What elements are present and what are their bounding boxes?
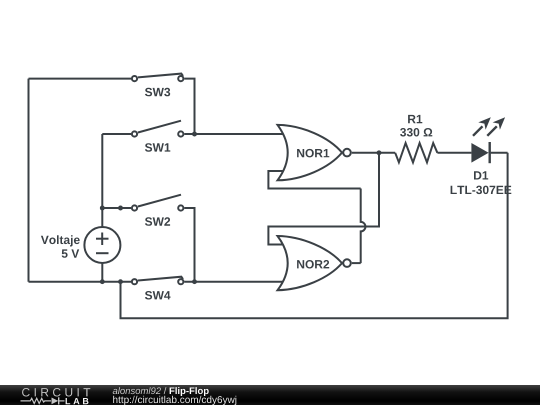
switch SW4 xyxy=(132,277,184,300)
footer CircuitLab logo xyxy=(21,388,91,405)
label D1 xyxy=(474,171,488,179)
wire LED cathode to right column xyxy=(491,152,508,154)
wire feedback to NOR1 bottom input xyxy=(268,171,360,189)
wire bottom return path xyxy=(121,153,508,318)
label SW1 xyxy=(145,143,170,152)
voltage source V1 xyxy=(41,227,121,263)
resistor R1 xyxy=(395,115,437,162)
wire NOR2 output up with hop over cross wire xyxy=(361,189,366,264)
wire SW1 right to NOR1 top input xyxy=(184,133,284,135)
wire SW1 row left with corner down xyxy=(102,133,131,135)
NOR gate NOR1 xyxy=(278,125,351,180)
wire SW4 right to NOR2 bottom input xyxy=(184,281,284,283)
NOR gate NOR2 xyxy=(278,236,351,290)
value label LTL-307EE xyxy=(451,186,512,195)
label NOR2 xyxy=(297,260,329,269)
wire SW3 row left xyxy=(29,78,132,80)
label R1 xyxy=(408,115,422,123)
label Voltaje xyxy=(41,235,80,246)
wire SW2 right to corner down to SW4 row xyxy=(184,208,194,282)
node dot SW4 tee xyxy=(100,279,105,284)
node junction dots xyxy=(100,132,382,285)
wire R1 to LED xyxy=(437,152,471,154)
node dot SW2 row xyxy=(118,206,123,211)
switch SW2 xyxy=(132,195,184,226)
wire SW3 right to corner down to SW1 row xyxy=(184,79,194,134)
switch SW1 xyxy=(132,121,184,152)
node dot SW4 row xyxy=(118,279,123,284)
wire NOR2 output right xyxy=(352,262,361,264)
wire SW2 row xyxy=(102,207,131,209)
LED D1 xyxy=(451,117,512,194)
footer title text xyxy=(113,387,237,405)
wire from SW1-left corner down to source top xyxy=(101,134,103,227)
wire source bottom to SW4 row xyxy=(101,264,103,282)
wire left outer vertical xyxy=(28,79,30,282)
node dot SW2 tee xyxy=(100,206,105,211)
wire NOR1 output down and across to NOR2 top input xyxy=(268,153,379,245)
wire SW4 row left xyxy=(29,281,132,283)
node dot SW4 right xyxy=(192,279,197,284)
node dot NOR1 output xyxy=(377,150,382,155)
value label 330 ohm xyxy=(400,128,432,137)
label NOR1 xyxy=(297,149,329,158)
label SW3 xyxy=(145,88,170,97)
value label 5 V xyxy=(62,249,79,257)
label SW2 xyxy=(145,217,170,226)
footer bar xyxy=(0,385,540,405)
label SW4 xyxy=(145,291,171,300)
switch SW3 xyxy=(132,74,184,97)
wire NOR1 output to R1 xyxy=(352,152,395,154)
node dot SW1 right xyxy=(192,132,197,137)
